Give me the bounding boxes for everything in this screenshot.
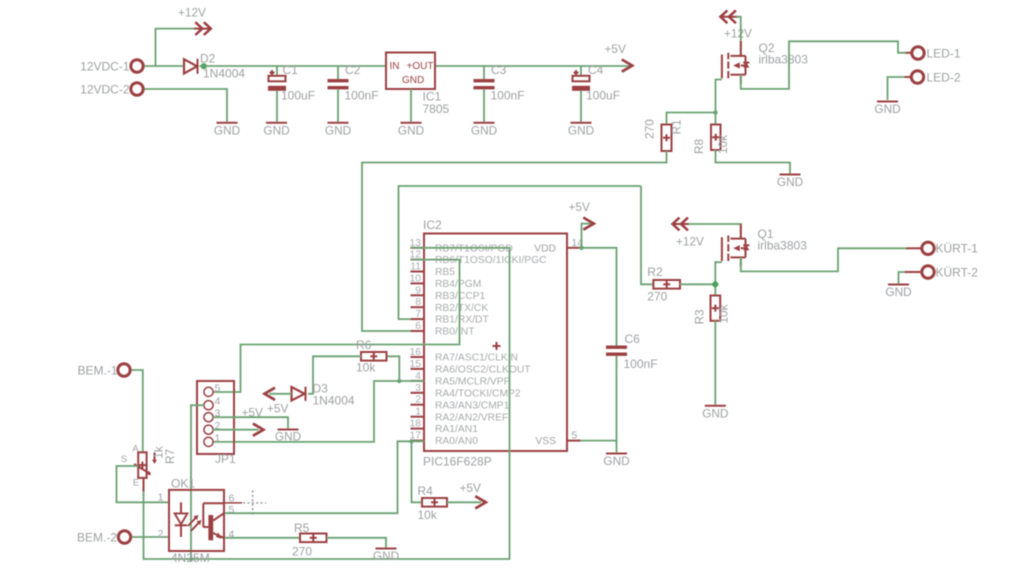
wire R4 to +5V — [447, 501, 481, 503]
svg-text:100nF: 100nF — [345, 89, 379, 103]
wire Q1 gate to R2/R3 node — [715, 262, 722, 295]
svg-text:10k: 10k — [716, 135, 730, 154]
wire R7 wiper to OK1 pin1 — [117, 466, 170, 502]
resistor R2 — [653, 280, 680, 289]
wire BEM-2 to OK1 pin2 — [131, 536, 169, 538]
svg-text:RA0/AN0: RA0/AN0 — [435, 436, 478, 447]
wire JP1 pin2 to +5V — [213, 429, 259, 431]
pad 12VDC-1 — [80, 60, 143, 74]
wire +12V rail D2 to IC1 — [200, 65, 387, 67]
wire +12V to Q2 drain — [737, 17, 741, 56]
svg-text:RA4/TOCKI/CMP2: RA4/TOCKI/CMP2 — [435, 388, 521, 399]
ground for R5 — [373, 549, 399, 564]
ground for KURT-2 — [885, 285, 911, 300]
wire down to R2 left — [641, 186, 653, 284]
svg-text:+5V: +5V — [267, 402, 288, 416]
label C3 — [491, 63, 525, 103]
svg-text:1N4004: 1N4004 — [313, 394, 355, 408]
label C2 — [345, 63, 379, 103]
resistor R8 — [711, 125, 721, 151]
label R1 — [643, 119, 684, 139]
resistor R3 — [711, 296, 721, 321]
wire R1 top — [667, 113, 715, 125]
svg-text:1: 1 — [158, 492, 164, 504]
label OK1 — [171, 477, 210, 566]
svg-text:VDD: VDD — [534, 243, 556, 254]
wire R2 right to junction — [680, 283, 715, 285]
ground for C3 — [471, 123, 497, 138]
svg-text:7: 7 — [415, 309, 421, 320]
wire +12V to Q1 drain — [689, 224, 741, 239]
svg-text:GND: GND — [568, 123, 594, 137]
wire OK1 pin5 to RA0 — [225, 441, 424, 513]
pad BEM-1 — [77, 364, 130, 378]
capacitor C4 — [572, 70, 590, 91]
resistor R5 — [300, 534, 327, 543]
label R2 — [647, 265, 667, 304]
wire VDD net with C6 — [581, 248, 617, 452]
svg-text:IN: IN — [390, 61, 400, 72]
svg-text:R2: R2 — [647, 265, 663, 279]
wire JP1 pin4 to RB7 rail — [191, 405, 204, 559]
connector JP1 — [197, 381, 234, 454]
svg-text:100uF: 100uF — [586, 89, 620, 103]
svg-text:+5V: +5V — [460, 481, 481, 495]
wire JP1 pin3 to ground — [213, 417, 288, 429]
junction node VDD — [579, 246, 583, 250]
svg-text:100nF: 100nF — [624, 357, 658, 371]
microcontroller IC2 PIC16F628P — [410, 234, 584, 452]
svg-text:LED-2: LED-2 — [927, 71, 961, 85]
svg-text:+12V: +12V — [676, 235, 704, 249]
svg-text:+OUT: +OUT — [407, 61, 434, 72]
svg-text:12VDC-2: 12VDC-2 — [80, 83, 130, 97]
power symbol +5V at JP1 — [242, 406, 264, 436]
svg-text:11: 11 — [410, 262, 421, 273]
svg-text:10k: 10k — [418, 508, 438, 522]
svg-text:4: 4 — [229, 529, 235, 541]
svg-text:C2: C2 — [345, 63, 361, 77]
svg-text:7805: 7805 — [423, 102, 450, 116]
svg-text:GND: GND — [373, 549, 399, 563]
svg-text:GND: GND — [402, 75, 424, 86]
junction node RA0/R4 — [409, 439, 413, 443]
svg-text:+5V: +5V — [242, 406, 263, 420]
wire Q2 source to LED-1 pad — [741, 41, 906, 89]
svg-text:15: 15 — [410, 359, 422, 370]
svg-text:270: 270 — [292, 545, 312, 559]
svg-text:BEM.-1: BEM.-1 — [77, 364, 117, 378]
junction node pin4 rail — [189, 557, 193, 561]
svg-text:10: 10 — [410, 273, 422, 284]
wire C4 drops — [580, 66, 582, 122]
label C6 — [624, 332, 658, 371]
power symbol +5V at R4 — [460, 481, 486, 508]
power symbol +12V for Q1 — [673, 218, 705, 249]
label R6 — [356, 338, 376, 375]
svg-text:+5V: +5V — [569, 200, 590, 214]
wire +5V rail IC1 to supply arrow — [435, 65, 629, 67]
capacitor C3 — [474, 79, 495, 89]
wire R6 left to D3 cathode — [308, 356, 361, 394]
svg-text:+12V: +12V — [178, 6, 206, 20]
wire R3 bottom to ground — [714, 321, 716, 405]
label D3 — [313, 382, 355, 408]
label C1 — [281, 63, 315, 103]
svg-text:RA2/AN2/VREF: RA2/AN2/VREF — [435, 412, 508, 423]
resistor R6 — [361, 352, 387, 361]
svg-text:R5: R5 — [294, 521, 310, 535]
label R3 — [693, 304, 731, 324]
svg-text:2: 2 — [415, 395, 421, 406]
wire RB7 to programming rail — [144, 248, 510, 559]
svg-text:5: 5 — [229, 504, 235, 516]
wire LED-2 to ground — [888, 77, 905, 100]
svg-text:270: 270 — [643, 119, 657, 139]
wire R6 right to MCLR — [387, 356, 400, 381]
label R4 — [418, 484, 438, 522]
junction node gate Q1 — [712, 281, 718, 287]
wire Q1 source to KURT-1 — [741, 248, 906, 271]
label D2 name — [200, 52, 216, 66]
svg-text:100uF: 100uF — [281, 89, 315, 103]
svg-text:3: 3 — [415, 383, 421, 394]
svg-text:GND: GND — [214, 123, 240, 137]
ground for C1 — [263, 123, 289, 138]
pad KURT-2 — [905, 266, 979, 280]
svg-text:KÜRT-2: KÜRT-2 — [936, 266, 979, 280]
svg-text:R6: R6 — [356, 338, 372, 352]
label R7 — [152, 446, 178, 464]
svg-text:8: 8 — [415, 297, 421, 308]
ground for R8 — [777, 175, 803, 190]
wire 12VDC-1 pad to D2 anode — [144, 65, 185, 67]
svg-text:RA5/MCLR/VPP: RA5/MCLR/VPP — [435, 377, 511, 388]
diode D2 — [184, 59, 198, 74]
svg-text:4: 4 — [215, 396, 221, 408]
svg-text:+5V: +5V — [605, 42, 626, 56]
wire R5 to ground — [327, 538, 387, 548]
wire C1 drops — [276, 66, 278, 122]
ground for VSS and C6 — [603, 454, 629, 469]
wire C3 drops — [483, 66, 485, 122]
svg-text:+12V: +12V — [724, 27, 752, 41]
label R5 — [292, 521, 312, 559]
svg-text:irlba3803: irlba3803 — [758, 239, 808, 253]
svg-text:GND: GND — [275, 429, 301, 443]
svg-text:S: S — [121, 454, 127, 465]
unconnected base pin 6 dotted — [225, 491, 266, 515]
svg-text:1N4004: 1N4004 — [203, 67, 245, 81]
svg-text:R1: R1 — [670, 119, 684, 134]
svg-text:1: 1 — [215, 432, 221, 444]
label IC2 — [423, 218, 492, 469]
wire C2 drops — [337, 66, 339, 122]
wire D3 anode to +5V — [270, 393, 292, 395]
label D2 value 1N4004 — [203, 67, 245, 81]
svg-text:PIC16F628P: PIC16F628P — [423, 455, 492, 469]
ground for IC1 — [398, 123, 424, 138]
power symbol +5V at D3 — [265, 388, 289, 416]
power symbol +12V top-left — [178, 6, 211, 36]
power symbol +5V rail end — [605, 42, 633, 72]
capacitor C2 — [328, 79, 349, 89]
transistor Q2 — [722, 41, 750, 84]
wire 12VDC-2 to ground — [144, 89, 228, 122]
svg-text:R3: R3 — [693, 309, 707, 325]
transistor Q1 — [722, 224, 750, 267]
label JP1 — [215, 452, 236, 466]
label Q2 — [759, 41, 809, 67]
svg-text:GND: GND — [702, 406, 728, 420]
svg-text:9: 9 — [415, 285, 421, 296]
svg-text:18: 18 — [410, 419, 422, 430]
svg-text:RB1/RX/DT: RB1/RX/DT — [435, 315, 489, 326]
capacitor C6 — [606, 346, 627, 356]
diode D3 — [292, 387, 306, 401]
svg-text:VSS: VSS — [535, 436, 556, 447]
svg-text:C4: C4 — [588, 63, 604, 77]
svg-text:E: E — [133, 478, 139, 489]
svg-text:OK1: OK1 — [171, 477, 195, 491]
svg-text:GND: GND — [777, 175, 803, 189]
wire IC1 gnd — [410, 89, 412, 122]
svg-text:BEM.-2: BEM.-2 — [77, 531, 117, 545]
svg-text:RB5: RB5 — [435, 267, 455, 278]
svg-text:A: A — [132, 444, 139, 455]
svg-text:GND: GND — [325, 123, 351, 137]
junction node R1/R8/gate — [713, 110, 717, 114]
wire BEM-1 to R7 — [131, 370, 143, 452]
pad BEM-2 — [77, 531, 131, 545]
ground for R3 — [702, 406, 728, 421]
svg-text:6: 6 — [415, 321, 421, 332]
wire branch up to +12V supply — [156, 29, 195, 66]
trimmer R7 — [121, 444, 157, 489]
wire KURT-2 to ground — [899, 272, 905, 284]
svg-text:100nF: 100nF — [491, 89, 525, 103]
svg-text:RB0/INT: RB0/INT — [435, 327, 475, 338]
wire VDD to +5V arrow — [582, 224, 592, 248]
wire Q2 gate down — [716, 80, 722, 125]
power symbol +12V for Q2 — [720, 10, 752, 40]
svg-text:2: 2 — [158, 528, 164, 540]
svg-text:16: 16 — [410, 347, 422, 358]
svg-text:RB6/T1OSO/1ICKI/PGC: RB6/T1OSO/1ICKI/PGC — [435, 255, 547, 266]
svg-text:irlba3803: irlba3803 — [759, 53, 809, 67]
resistor R4 — [422, 498, 447, 507]
optocoupler OK1 4N25M — [158, 490, 235, 551]
svg-text:LED-1: LED-1 — [927, 47, 961, 61]
pad KURT-1 — [906, 242, 978, 256]
svg-text:5: 5 — [572, 431, 578, 442]
svg-text:RA1/AN1: RA1/AN1 — [435, 424, 478, 435]
resistor R1 — [662, 125, 672, 152]
svg-text:KÜRT-1: KÜRT-1 — [936, 242, 979, 256]
capacitor C1 — [268, 70, 286, 91]
svg-text:4N25M: 4N25M — [171, 551, 210, 565]
svg-text:R8: R8 — [692, 139, 706, 155]
svg-text:10k: 10k — [356, 361, 376, 375]
ground for C4 — [568, 123, 594, 138]
wire RB6 to JP1 pin5 — [213, 260, 460, 392]
svg-text:RA3/AN3/CMP1: RA3/AN3/CMP1 — [435, 400, 510, 411]
svg-text:RB4/PGM: RB4/PGM — [435, 279, 481, 290]
pad LED-1 — [906, 47, 961, 61]
pin stub R7 bottom — [143, 478, 145, 492]
svg-text:GND: GND — [885, 285, 911, 299]
svg-text:GND: GND — [603, 454, 629, 468]
label C4 — [586, 63, 620, 103]
svg-text:GND: GND — [471, 123, 497, 137]
regulator IC1 7805 box — [386, 53, 435, 90]
pad LED-2 — [905, 71, 961, 85]
svg-text:RB7/T1OSI/PGD: RB7/T1OSI/PGD — [435, 243, 513, 254]
junction node MCLR — [397, 379, 401, 383]
svg-text:270: 270 — [647, 290, 667, 304]
svg-text:12VDC-1: 12VDC-1 — [80, 60, 130, 74]
ground for C2 — [325, 123, 351, 138]
svg-text:JP1: JP1 — [215, 452, 236, 466]
svg-text:R4: R4 — [418, 484, 434, 498]
ground for LED-2 — [874, 102, 900, 117]
svg-text:IC2: IC2 — [423, 218, 442, 232]
wire R8 bottom to ground — [716, 150, 791, 174]
svg-text:RA7/ASC1/CLKIN: RA7/ASC1/CLKIN — [435, 353, 518, 364]
svg-text:C6: C6 — [625, 332, 641, 346]
svg-text:GND: GND — [263, 123, 289, 137]
svg-text:C3: C3 — [491, 63, 507, 77]
pad 12VDC-2 — [80, 83, 143, 97]
label R8 — [692, 135, 730, 154]
wire R1 bottom to RB0 — [362, 151, 667, 331]
junction node at D2 cathode — [201, 63, 207, 69]
ground for 12VDC-2 — [214, 123, 240, 138]
svg-text:GND: GND — [874, 102, 900, 116]
svg-text:RB2/TX/CK: RB2/TX/CK — [435, 303, 488, 314]
wire OK1 pin4 to R5 — [225, 537, 300, 539]
svg-text:10k: 10k — [717, 304, 731, 323]
svg-text:GND: GND — [398, 123, 424, 137]
power symbol +5V at VDD — [569, 200, 594, 230]
wire RB1 to R2 — [399, 186, 642, 319]
wire junction to R4 — [412, 441, 423, 502]
svg-text:C1: C1 — [283, 63, 299, 77]
svg-text:R7: R7 — [163, 449, 177, 464]
svg-text:RA6/OSC2/CLKOUT: RA6/OSC2/CLKOUT — [435, 365, 531, 376]
ground for JP1 pin3 — [275, 429, 301, 443]
wire JP1 pin1 to MCLR — [213, 381, 424, 442]
svg-text:D2: D2 — [200, 52, 216, 66]
label IC1 — [423, 90, 450, 117]
svg-text:1: 1 — [415, 407, 421, 418]
label Q1 — [758, 227, 808, 253]
svg-text:5: 5 — [215, 382, 221, 394]
